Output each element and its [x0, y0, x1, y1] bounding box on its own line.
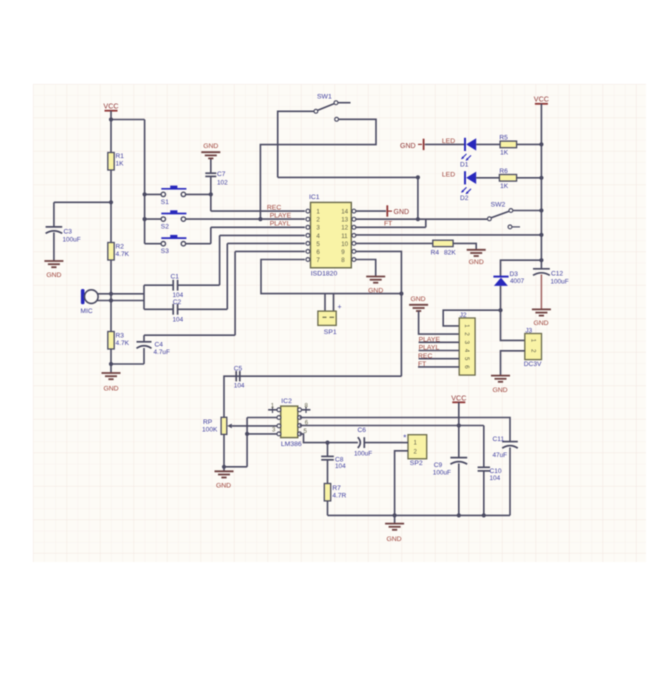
svg-text:C3: C3 — [64, 229, 73, 236]
wire to IC1 pin6 — [235, 250, 305, 252]
svg-text:D2: D2 — [460, 195, 469, 202]
wire to IC1 pin3 — [211, 226, 305, 228]
svg-text:C10: C10 — [490, 468, 502, 475]
wire C5 to RP top — [224, 376, 236, 417]
ground below R3 — [102, 373, 121, 393]
svg-text:GND: GND — [400, 143, 416, 150]
resistor R7 — [324, 484, 330, 501]
svg-text:GND: GND — [216, 482, 231, 489]
wire J3 pin2 to ground — [501, 351, 525, 376]
wire to IC1 pin5 — [227, 242, 305, 244]
node S1 C7 junction — [209, 192, 213, 196]
wire J2 gnd to pin2 — [419, 311, 460, 334]
svg-text:LED: LED — [442, 172, 455, 179]
resistor R2 — [108, 243, 114, 261]
IC2 right pin circles — [298, 408, 302, 436]
node junction at VCC branch — [109, 117, 113, 121]
IC1 right pin circles — [352, 209, 356, 261]
svg-text:SW1: SW1 — [317, 94, 332, 101]
svg-text:LED: LED — [442, 138, 455, 145]
wire C9 to rail — [458, 463, 460, 515]
node SW1 FT junction — [416, 217, 420, 221]
svg-text:FT: FT — [384, 220, 392, 227]
diode D3 1N4007 — [493, 277, 508, 286]
svg-text:GND: GND — [103, 385, 118, 392]
IC1 pin numbers — [316, 209, 348, 264]
svg-text:C5: C5 — [234, 365, 243, 372]
wire bus to S2 — [145, 218, 161, 220]
wire C4 row to riser — [144, 334, 235, 336]
svg-text:104: 104 — [173, 316, 184, 323]
wire pin13 FT to SW2 — [356, 218, 487, 220]
ground below C12 — [532, 309, 551, 327]
node D3 branch junction — [539, 258, 543, 262]
wire to IC1 pin1 — [211, 210, 305, 212]
wire R1 to mid junction — [110, 170, 112, 243]
wire R2 to mic node — [110, 260, 112, 332]
svg-text:GND: GND — [203, 143, 218, 150]
wire J2 pin5 REC stub — [419, 358, 460, 360]
capacitor C4 — [137, 342, 152, 349]
wire riser to IC2 pin4 — [247, 433, 281, 435]
resistor R4 — [433, 240, 453, 246]
svg-text:100uF: 100uF — [354, 450, 372, 457]
wire C4 bottom lead — [143, 348, 145, 364]
wire J2 pin6 FT stub — [418, 366, 459, 368]
wire C1 to riser — [178, 284, 220, 286]
microphone MIC — [81, 289, 98, 304]
SP2 pin numbers — [414, 441, 418, 456]
wire output to C6 — [328, 442, 358, 444]
J2 pin numbers — [463, 324, 469, 369]
node output C8 junction — [325, 441, 329, 445]
LED D2 — [461, 171, 476, 194]
svg-text:C6: C6 — [358, 427, 367, 434]
svg-text:C9: C9 — [434, 462, 443, 469]
J3 pin numbers — [530, 339, 536, 353]
svg-text:47uF: 47uF — [493, 452, 508, 459]
svg-text:4.7uF: 4.7uF — [154, 349, 170, 356]
wire R5 to VCC bus — [517, 143, 542, 145]
node C10 rail junction — [482, 513, 486, 517]
svg-text:VCC: VCC — [451, 393, 466, 402]
wire C4 top lead — [143, 335, 145, 342]
svg-text:11: 11 — [341, 233, 348, 240]
wire J2 pin4 PLAYL stub — [419, 350, 460, 352]
wire VCC stub to pin6 row — [458, 402, 460, 425]
svg-text:C7: C7 — [217, 171, 226, 178]
capacitor C12 — [533, 269, 550, 276]
node C9 rail junction — [457, 513, 461, 517]
svg-text:1K: 1K — [116, 161, 125, 168]
connector J3 — [525, 334, 542, 360]
wire branch left to C3 — [54, 201, 111, 203]
wire C8 to R7 — [327, 460, 329, 484]
IC2 left pin circles — [277, 408, 281, 436]
wire C11 to rail — [509, 447, 511, 515]
op-amp IC2 LM386 body — [281, 406, 298, 438]
svg-text:REC: REC — [418, 353, 432, 360]
wire down to pin1 row — [210, 194, 212, 211]
wire riser to IC2 pin2 — [247, 417, 281, 419]
svg-text:4007: 4007 — [510, 278, 525, 285]
node mic upper junction — [109, 292, 113, 296]
svg-text:13: 13 — [341, 217, 348, 224]
node junction C4 return — [109, 362, 113, 366]
wire jog mic to C1 C2 rows — [143, 285, 145, 309]
svg-text:PLAYE: PLAYE — [270, 212, 292, 219]
wire D2 to R6 — [476, 177, 499, 179]
wire mic upper to bus — [98, 293, 144, 295]
node junction to C3 — [109, 200, 113, 204]
IC2 pin8 stub — [298, 407, 311, 413]
capacitor C2 — [173, 304, 177, 315]
svg-text:GND: GND — [394, 209, 410, 216]
ground below SP2 — [385, 524, 404, 543]
wire R7 to rail — [327, 501, 329, 516]
wire pin7 to C11 — [300, 418, 510, 442]
resistor R5 — [500, 141, 516, 148]
capacitor C3 — [46, 227, 63, 234]
wire VCC stub to junction — [110, 111, 112, 120]
resistor R3 — [108, 332, 114, 350]
svg-text:14: 14 — [341, 209, 348, 216]
wire D1 to R5 — [476, 143, 500, 145]
wire RP wiper to IC2 pin3 — [232, 425, 281, 427]
svg-text:SP2: SP2 — [410, 460, 423, 467]
wire pin5 output — [300, 434, 328, 443]
capacitor C1 — [173, 280, 177, 291]
svg-text:R5: R5 — [499, 134, 508, 141]
power symbol VCC (top right) — [534, 95, 549, 104]
node SW1 D2 junction — [416, 175, 420, 179]
svg-text:1K: 1K — [500, 183, 509, 190]
svg-text:D1: D1 — [460, 162, 469, 169]
wire riser to pin6 — [234, 251, 236, 335]
svg-text:*: * — [403, 434, 406, 443]
wire J2 pin1 route — [443, 310, 500, 326]
svg-text:SP1: SP1 — [324, 329, 337, 336]
wire button bus vertical — [144, 120, 146, 244]
node S1 bus junction — [143, 192, 147, 196]
wire SP2 pin2 to ground rail — [395, 451, 408, 524]
svg-text:R4: R4 — [431, 249, 440, 256]
node pin11 bus junction — [539, 233, 543, 237]
resistor R6 — [499, 175, 516, 182]
svg-text:FT: FT — [418, 361, 426, 368]
wire C10 to rail — [483, 471, 485, 516]
speaker connector SP2 — [408, 435, 427, 459]
power bar GND at pin14 — [387, 205, 392, 216]
svg-text:DC3V: DC3V — [524, 361, 542, 368]
wire C10 branch — [483, 426, 485, 468]
ground right of R4 — [467, 250, 486, 266]
wire SW1 throw2 loop to PLAYE — [260, 119, 376, 219]
svg-text:12: 12 — [341, 225, 348, 232]
wire pin12 jog up to FT — [425, 219, 427, 227]
wire pin6 to VCC and C10 — [300, 425, 484, 427]
svg-text:MIC: MIC — [81, 308, 93, 315]
svg-text:S2: S2 — [161, 224, 169, 231]
svg-text:GND: GND — [533, 320, 548, 327]
svg-text:1: 1 — [316, 209, 320, 216]
wire C2 to riser — [178, 308, 228, 310]
svg-text:GND: GND — [469, 259, 484, 266]
wire SP1 stub left — [324, 294, 326, 312]
svg-text:6: 6 — [316, 249, 320, 256]
wire pin8 to ground — [356, 260, 376, 277]
switch SW2 — [488, 201, 513, 220]
svg-text:104: 104 — [234, 383, 245, 390]
svg-text:104: 104 — [173, 292, 184, 299]
wire down to C3 — [53, 202, 55, 226]
node VCC C9 junction — [457, 423, 461, 427]
wire SP1 stub right — [333, 294, 335, 312]
node R6 bus junction — [539, 176, 543, 180]
pushbutton S2 — [161, 210, 186, 221]
svg-text:D3: D3 — [510, 271, 519, 278]
svg-text:R1: R1 — [116, 153, 125, 160]
switch SW2 throw2 open — [508, 225, 520, 229]
svg-text:7: 7 — [316, 257, 320, 264]
svg-text:IC2: IC2 — [281, 398, 292, 405]
wire bus corner to S3 — [145, 243, 161, 245]
wire C4 return — [111, 363, 144, 365]
node mic lower junction — [109, 298, 113, 302]
potentiometer RP — [221, 417, 232, 434]
svg-text:82K: 82K — [444, 249, 456, 256]
svg-text:+: + — [338, 304, 342, 311]
ground below RP — [215, 467, 234, 490]
wire riser to pin3 row — [210, 227, 212, 243]
svg-text:GND: GND — [386, 536, 401, 543]
capacitor C10 — [478, 467, 490, 471]
svg-text:100uF: 100uF — [551, 279, 569, 286]
wire pin10 to R4 — [356, 242, 433, 244]
wire gnd bar to D1 — [425, 143, 465, 145]
wire ground rail — [328, 514, 511, 516]
node pin9 speaker junction — [399, 292, 403, 296]
svg-text:J3: J3 — [525, 327, 532, 334]
wire pin11 to VCC bus — [356, 234, 541, 236]
wire riser to pin5 — [226, 243, 228, 309]
svg-text:100uF: 100uF — [63, 236, 81, 243]
svg-text:GND: GND — [46, 272, 61, 279]
svg-text:R7: R7 — [332, 485, 341, 492]
capacitor C5 — [236, 371, 240, 381]
pushbutton S1 — [161, 186, 186, 197]
svg-text:100K: 100K — [202, 426, 218, 433]
wire C8 top — [327, 443, 329, 457]
svg-text:LM386: LM386 — [281, 441, 302, 448]
wire C6 to SP2 — [364, 442, 403, 444]
wire C1 row left — [144, 284, 173, 286]
svg-text:ISD1820: ISD1820 — [311, 271, 338, 278]
svg-text:8: 8 — [341, 257, 345, 264]
wire C7 to ground — [210, 158, 212, 173]
schematic sheet with grid — [33, 84, 646, 562]
switch SW1 — [314, 94, 351, 114]
svg-text:GND: GND — [492, 387, 507, 394]
wire SP2 pin1 stub — [403, 442, 408, 444]
wire R3 to gnd junction — [110, 349, 112, 373]
wire riser to pin4 — [219, 235, 221, 285]
wire VCC bus vertical — [540, 104, 542, 269]
wire SW1 common left and down — [278, 111, 314, 177]
wire branch to D3 — [501, 260, 542, 276]
node RP gnd junction — [222, 465, 226, 469]
switch SW1 throw2 circle — [335, 117, 339, 121]
svg-text:S3: S3 — [161, 248, 169, 255]
wire C2 row left — [144, 308, 173, 310]
svg-text:VCC: VCC — [103, 101, 118, 110]
wire VCC down to R1 — [110, 120, 112, 153]
wire mic lower to bus — [97, 300, 144, 302]
wire gnd node to IC2 pin2 pin4 riser — [224, 466, 247, 468]
IC2 pin numbers — [271, 403, 309, 434]
ground below J3 — [491, 376, 510, 394]
LED D1 — [461, 138, 476, 161]
wire pin12 row — [356, 226, 426, 228]
svg-text:1K: 1K — [500, 150, 509, 157]
capacitor C8 — [321, 456, 334, 459]
wire C7 to S1 node — [210, 176, 212, 194]
pushbutton S3 — [161, 235, 186, 246]
svg-text:PLAYE: PLAYE — [419, 336, 441, 343]
power symbol VCC (amp) — [451, 393, 466, 402]
svg-text:104: 104 — [490, 475, 501, 482]
capacitor C11 — [502, 442, 518, 449]
node SP2 gnd rail junction — [393, 513, 397, 517]
speaker SP1 — [318, 311, 336, 325]
wire SW1 net down to FT row — [417, 177, 419, 219]
op-amp IC1 ISD1820 body — [311, 202, 352, 267]
svg-text:4.7K: 4.7K — [116, 251, 130, 258]
svg-text:S1: S1 — [161, 199, 169, 206]
svg-text:4: 4 — [316, 233, 320, 240]
wire S3 to riser — [186, 243, 211, 245]
wire pin9 right and down — [356, 251, 401, 376]
node R5 bus junction — [539, 142, 543, 146]
svg-text:104: 104 — [335, 463, 346, 470]
resistor R1 — [108, 153, 114, 171]
svg-text:VCC: VCC — [534, 95, 549, 104]
wire S2 to IC1 pin2 — [186, 218, 305, 220]
ground below pin8 — [366, 277, 385, 295]
svg-text:SW2: SW2 — [491, 201, 506, 208]
wire J2 pin3 PLAYE stub — [419, 341, 460, 343]
wire RP bottom to gnd node — [223, 434, 225, 466]
svg-text:C4: C4 — [155, 341, 164, 348]
svg-text:J2: J2 — [460, 312, 467, 319]
wire C9 branch — [458, 426, 460, 458]
wire to IC1 pin4 — [220, 234, 305, 236]
svg-text:C2: C2 — [173, 299, 182, 306]
svg-text:5: 5 — [316, 241, 320, 248]
svg-text:4.7R: 4.7R — [332, 492, 346, 499]
svg-text:R3: R3 — [116, 332, 125, 339]
wire pin9 net to C5 row — [236, 375, 401, 377]
wire bus to S1 — [145, 193, 161, 195]
svg-text:RP: RP — [203, 419, 213, 426]
wire S1 to C7 node — [186, 193, 211, 195]
capacitor C7 — [205, 173, 216, 176]
wire C12 to ground — [540, 275, 542, 310]
svg-text:C12: C12 — [551, 270, 563, 277]
wire SW1 common to LED row — [278, 176, 418, 178]
svg-text:PLAYL: PLAYL — [419, 345, 440, 352]
svg-text:4.7K: 4.7K — [116, 340, 130, 347]
wire C3 to ground — [53, 233, 55, 262]
svg-text:102: 102 — [217, 179, 228, 186]
svg-text:3: 3 — [316, 225, 320, 232]
wire riser pin2 pin4 — [246, 418, 248, 467]
svg-text:2: 2 — [316, 217, 320, 224]
wire pin14 to gnd bar — [356, 210, 386, 212]
svg-text:PLAYL: PLAYL — [270, 221, 291, 228]
node SW1 drop junction on PLAYE — [258, 217, 262, 221]
connector J2 — [459, 318, 475, 375]
svg-text:9: 9 — [341, 249, 345, 256]
node SW2 bus junction — [539, 208, 543, 212]
svg-text:REC: REC — [267, 204, 281, 211]
ground below C3 — [44, 261, 63, 279]
svg-text:10: 10 — [341, 241, 348, 248]
svg-text:R6: R6 — [499, 168, 508, 175]
ground above C7 — [201, 143, 220, 158]
wire SW2 throw to VCC bus — [513, 210, 541, 212]
wire D3 to lower junction — [500, 286, 502, 310]
svg-text:C1: C1 — [171, 274, 180, 281]
svg-text:R2: R2 — [116, 243, 125, 250]
IC1 left pin circles — [306, 209, 310, 261]
ground above J2 — [409, 296, 428, 311]
node riser pin4 junction — [245, 432, 249, 436]
svg-text:C11: C11 — [493, 436, 505, 443]
wire VCC branch right to button bus — [111, 119, 145, 121]
wire R6 to VCC bus — [517, 177, 542, 179]
svg-text:IC1: IC1 — [309, 194, 320, 201]
svg-text:100uF: 100uF — [433, 470, 451, 477]
capacitor C6 — [358, 437, 365, 448]
wire R4 to gnd stub — [453, 243, 476, 249]
svg-text:GND: GND — [410, 296, 425, 303]
capacitor C9 — [450, 458, 467, 465]
wire J3 pin1 route — [501, 310, 525, 340]
IC2 pin1 stub — [268, 407, 281, 413]
wire pin7 to speaker row — [261, 260, 401, 294]
node S2 bus junction — [143, 217, 147, 221]
power symbol VCC (top left) — [103, 101, 118, 110]
node D3 output junction — [498, 308, 502, 312]
